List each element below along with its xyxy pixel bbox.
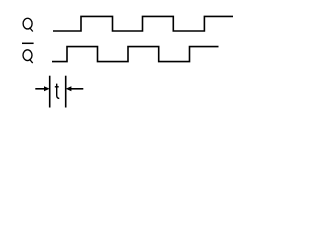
t marker: left boundary line	[49, 76, 51, 108]
t marker: left arrow (points right)	[35, 86, 49, 91]
t marker: right boundary line	[65, 76, 67, 108]
label t	[55, 84, 60, 99]
label Q-bar (bottom waveform)	[22, 43, 34, 63]
t marker: right arrow (points left)	[66, 86, 84, 91]
waveform Q	[53, 16, 233, 31]
waveform Q-bar	[52, 47, 219, 62]
label Q (top waveform)	[23, 18, 33, 31]
